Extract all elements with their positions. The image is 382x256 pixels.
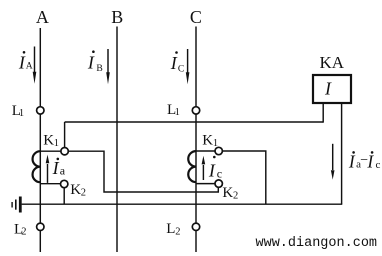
wire CT-A secondary bottom to K2A [40, 183, 64, 185]
wire common return bottom [22, 203, 343, 205]
svg-text:K: K [70, 182, 81, 198]
label I_C [170, 51, 185, 74]
current arrow Ia (up) [46, 155, 50, 183]
label K1 of TC [202, 133, 218, 150]
svg-text:L: L [166, 221, 175, 237]
wire K2A drop to common [63, 184, 65, 204]
terminal L2 phase A [37, 223, 44, 230]
svg-text:K: K [222, 185, 233, 201]
terminal K1 of TC [215, 147, 222, 154]
svg-text:1: 1 [213, 138, 218, 149]
terminal L1 phase C [192, 107, 199, 114]
svg-text:c: c [217, 167, 222, 181]
wire phase C bus [195, 27, 197, 253]
svg-text:K: K [43, 133, 54, 149]
wire phase B bus [116, 27, 118, 253]
current transformer TA (phase A) secondary winding [33, 151, 41, 182]
label I_c [208, 156, 222, 181]
ground symbol [12, 197, 22, 213]
label Ia-Ic [348, 151, 381, 171]
svg-text:K: K [202, 133, 213, 149]
svg-text:B: B [111, 7, 123, 27]
current arrow IA [33, 47, 37, 84]
label L1 phase C [167, 102, 180, 118]
terminal L2 phase C [192, 223, 199, 230]
label K2 of TA [70, 182, 86, 199]
svg-text:1: 1 [175, 107, 180, 118]
svg-text:B: B [96, 63, 102, 74]
label I_a [52, 158, 66, 179]
svg-text:2: 2 [21, 226, 26, 237]
current arrow IB [106, 49, 110, 84]
svg-text:C: C [178, 64, 184, 75]
svg-text:I: I [52, 158, 60, 178]
svg-text:2: 2 [175, 226, 180, 237]
svg-text:I: I [170, 53, 178, 73]
label L2 phase C [166, 221, 180, 237]
label K2 of TC [222, 185, 238, 202]
current arrow Ia-Ic (down) [331, 144, 335, 180]
current transformer TC (phase C) secondary winding [188, 151, 196, 182]
svg-text:2: 2 [233, 191, 238, 202]
terminal K2 of TC [215, 180, 222, 187]
svg-text:I: I [348, 151, 356, 171]
svg-text:I: I [18, 52, 26, 72]
terminal L1 phase A [37, 107, 44, 114]
svg-text:I: I [87, 52, 95, 72]
wire CT-C secondary bottom to K2C [196, 183, 219, 185]
svg-text:1: 1 [19, 108, 24, 119]
wire K1A riser to relay wire [64, 122, 66, 151]
label L1 phase A [12, 103, 24, 119]
relay KA box [313, 75, 351, 103]
wire K1C to common return [219, 151, 266, 204]
svg-text:A: A [26, 60, 33, 71]
svg-text:2: 2 [81, 188, 86, 199]
current arrow Ic (up) [202, 156, 206, 180]
label L2 phase A [14, 222, 27, 238]
svg-text:I: I [366, 151, 374, 171]
label I_A [18, 51, 33, 72]
svg-text:www.diangon.com: www.diangon.com [256, 236, 378, 251]
svg-text:I: I [208, 160, 216, 180]
wire CT-A secondary top to K1A [40, 150, 64, 152]
svg-text:1: 1 [54, 138, 59, 149]
label I_B [87, 50, 103, 74]
wire KA right terminal drop [341, 103, 343, 204]
wire phase A bus [39, 28, 41, 252]
current arrow IC [186, 49, 190, 84]
svg-text:A: A [36, 7, 49, 27]
label K1 of TA [43, 133, 59, 150]
svg-text:KA: KA [320, 53, 345, 72]
svg-text:c: c [376, 159, 381, 171]
svg-text:I: I [324, 79, 332, 99]
wire horizontal K1A to KA left terminal [65, 121, 324, 123]
wire K1A to K2C link [65, 151, 219, 192]
svg-text:a: a [60, 164, 66, 178]
terminal K2 of TA [60, 180, 67, 187]
wire KA left terminal drop [322, 103, 324, 123]
terminal K1 of TA [61, 148, 68, 155]
wire CT-C secondary top to K1C [196, 150, 219, 152]
svg-text:C: C [190, 7, 202, 27]
